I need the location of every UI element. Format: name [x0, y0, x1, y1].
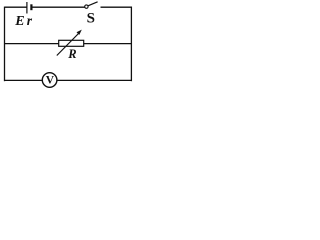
wire voltmeter to bottom-right corner: [57, 79, 132, 81]
wire battery to switch: [33, 6, 85, 8]
svg-text:E: E: [14, 14, 24, 29]
wire switch to top-right corner: [101, 6, 133, 8]
voltmeter V: [42, 73, 57, 88]
wire middle-left to rheostat: [5, 43, 59, 45]
svg-text:R: R: [67, 47, 76, 61]
svg-text:r: r: [27, 13, 33, 28]
rheostat R (variable resistor): [57, 30, 84, 56]
switch S: [85, 2, 98, 8]
wire middle-right from rheostat: [84, 43, 132, 45]
wire left vertical: [4, 7, 6, 82]
battery cell (E, r): [27, 2, 32, 14]
svg-text:S: S: [87, 10, 95, 26]
svg-text:V: V: [46, 74, 55, 86]
wire top-left from corner to battery: [5, 6, 27, 8]
wire bottom-left to voltmeter: [5, 79, 43, 81]
wire right vertical: [130, 7, 132, 82]
